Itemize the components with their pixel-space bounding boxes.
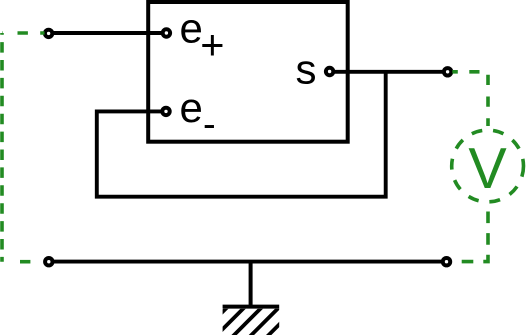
wire: feedback loop from e- pin down and around to s wire: [97, 72, 386, 197]
svg-text:V: V: [468, 137, 507, 201]
pin e+: [163, 29, 170, 36]
dashed measurement lead: left bottom: [2, 260, 45, 264]
dashed measurement lead: right top: [452, 72, 488, 126]
dashed measurement lead: left vertical: [0, 33, 4, 262]
svg-text:s: s: [296, 46, 317, 93]
ground: [196, 305, 299, 335]
terminal: bottom-right: [443, 258, 450, 265]
svg-text:+: +: [200, 21, 224, 68]
label e-: [180, 84, 216, 145]
label e+: [180, 5, 225, 69]
pin s: [326, 68, 333, 75]
terminal: bottom-left: [45, 258, 52, 265]
wire: ground stem: [249, 262, 253, 307]
terminal: top-left input: [45, 30, 52, 37]
wire: bottom rail: [49, 260, 447, 264]
op-amp block U1: [148, 2, 348, 142]
voltmeter V circle: [452, 130, 524, 202]
dashed measurement lead: right bottom: [453, 210, 488, 262]
wire: non-inverting input, terminal to e+ pin: [49, 31, 167, 35]
dashed measurement lead: left top: [2, 31, 45, 35]
pin e-: [162, 108, 169, 115]
svg-text:e: e: [180, 84, 203, 131]
svg-text:-: -: [203, 103, 216, 145]
terminal: output right: [444, 68, 451, 75]
wire: output s pin to right terminal: [330, 70, 448, 74]
